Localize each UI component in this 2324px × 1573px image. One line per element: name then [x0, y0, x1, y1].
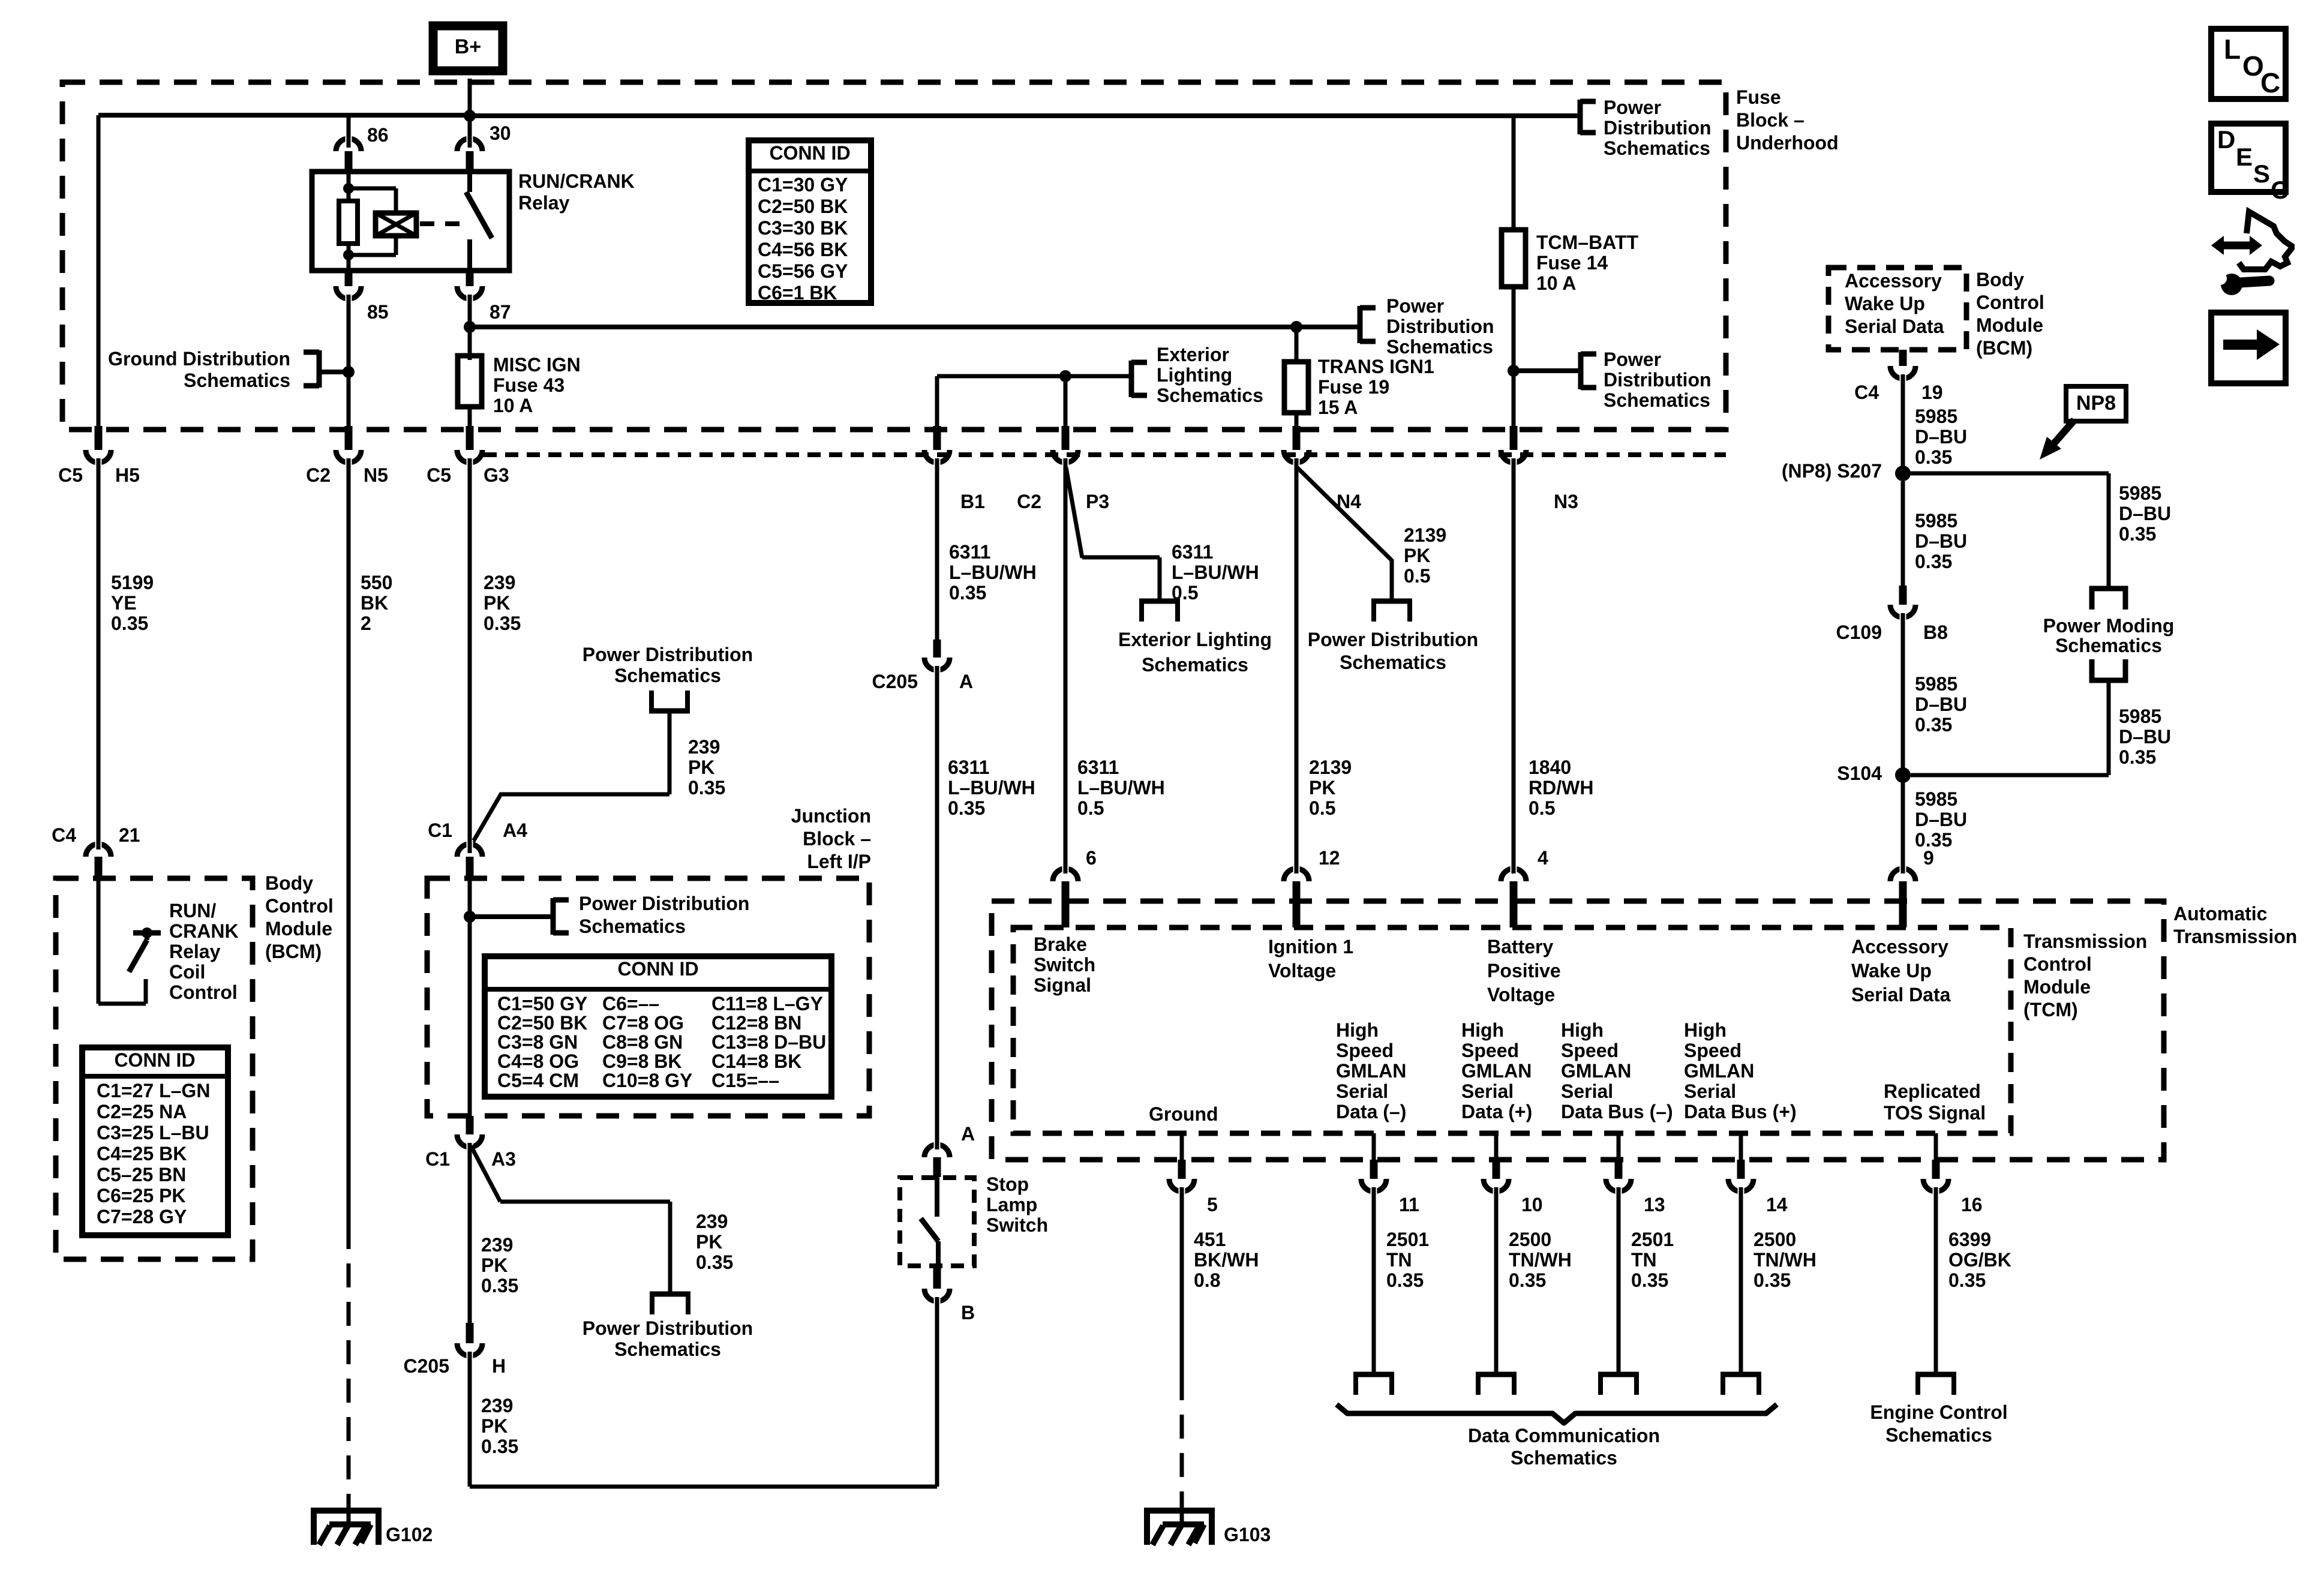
table CONN ID junction block: [485, 956, 831, 1097]
svg-text:Speed: Speed: [1461, 1040, 1519, 1061]
svg-text:239: 239: [688, 736, 720, 758]
svg-text:10 A: 10 A: [1536, 272, 1576, 294]
svg-text:D–BU: D–BU: [2119, 726, 2171, 748]
svg-text:C8=8 GN: C8=8 GN: [602, 1031, 683, 1053]
svg-text:Distribution: Distribution: [1386, 316, 1494, 337]
svg-text:Signal: Signal: [1034, 974, 1091, 996]
svg-text:0.35: 0.35: [481, 1436, 518, 1457]
svg-text:Exterior: Exterior: [1157, 344, 1229, 365]
svg-text:Ground Distribution: Ground Distribution: [108, 348, 290, 370]
svg-text:Schematics: Schematics: [1885, 1424, 1992, 1446]
connector TCM pin 5: [1169, 1133, 1218, 1215]
svg-text:Control: Control: [2023, 953, 2092, 975]
off-page terminal Power Distribution Schematics (N4): [1308, 601, 1478, 673]
svg-text:5985: 5985: [2119, 706, 2161, 727]
fuse TRANS IGN1 Fuse 19 15A: [1284, 356, 1434, 418]
svg-text:C2=50 BK: C2=50 BK: [497, 1012, 587, 1034]
svg-text:MISC IGN: MISC IGN: [493, 354, 581, 376]
svg-text:30: 30: [490, 122, 511, 144]
svg-text:Schematics: Schematics: [1157, 385, 1263, 406]
label Junction Block - Left I/P: [791, 805, 871, 872]
svg-text:A3: A3: [491, 1148, 516, 1170]
relay switch: [466, 173, 492, 271]
svg-text:Positive: Positive: [1487, 960, 1561, 981]
fuse MISC IGN Fuse 43 10A: [458, 354, 581, 416]
connector C5 pin H5: [58, 426, 140, 486]
stop lamp switch dashed box: [900, 1178, 974, 1266]
svg-text:Serial: Serial: [1684, 1080, 1736, 1102]
table CONN ID BCM: [82, 1047, 228, 1235]
svg-text:BK/WH: BK/WH: [1194, 1249, 1259, 1271]
svg-text:(NP8) S207: (NP8) S207: [1782, 460, 1882, 482]
svg-text:CRANK: CRANK: [169, 920, 239, 942]
svg-text:D–BU: D–BU: [1915, 426, 1967, 448]
wire C205A down to stop lamp switch: [935, 666, 939, 1148]
wire P3 branch to exterior lighting: [1066, 467, 1160, 601]
label 239 PK 0.35 (G3): [484, 572, 521, 634]
svg-text:L: L: [2224, 34, 2241, 65]
label 2501 TN 0.35: [1631, 1229, 1674, 1291]
svg-text:Battery: Battery: [1487, 936, 1553, 957]
svg-text:PK: PK: [484, 592, 510, 614]
svg-text:451: 451: [1194, 1229, 1226, 1250]
svg-text:C2=50 BK: C2=50 BK: [758, 196, 848, 217]
svg-text:N3: N3: [1554, 491, 1578, 512]
svg-text:Serial: Serial: [1461, 1080, 1514, 1102]
label 5985 D-BU 0.35 (pin 9): [1915, 788, 1967, 851]
svg-text:Power: Power: [1604, 349, 1661, 370]
label Brake Switch Signal: [1034, 933, 1095, 996]
connector TCM pin 10: [1484, 1133, 1543, 1215]
svg-text:0.35: 0.35: [2119, 523, 2156, 545]
wire pin85 down to N5: [347, 295, 351, 427]
connector TCM pin 14: [1728, 1133, 1788, 1215]
wire 6399 OG/BK pin 16: [1934, 1187, 1938, 1374]
off-page box Power Moding Schematics: [2043, 589, 2175, 680]
wire C4-19 to S207: [1901, 374, 1905, 473]
BCM dashed box (left): [56, 878, 253, 1259]
harness connector row dashed line: [484, 452, 1726, 457]
automatic transmission outer dashed box: [992, 901, 2164, 1160]
wire 2500 TN/WH at x2494: [1494, 1187, 1499, 1374]
svg-text:Lighting: Lighting: [1157, 364, 1232, 386]
svg-text:0.8: 0.8: [1194, 1269, 1220, 1291]
label 239 PK 0.35 (below C205 H): [481, 1395, 518, 1457]
svg-text:5: 5: [1207, 1194, 1218, 1215]
label Body Control Module (BCM) right: [1976, 269, 2044, 359]
svg-text:Distribution: Distribution: [1604, 369, 1712, 391]
stop lamp switch contacts: [921, 1177, 938, 1268]
svg-text:Engine Control: Engine Control: [1870, 1401, 2007, 1423]
svg-text:6399: 6399: [1948, 1229, 1991, 1250]
svg-text:2500: 2500: [1509, 1229, 1551, 1250]
label High Speed GMLAN Serial Data Bus (-): [1561, 1019, 1673, 1122]
svg-text:GMLAN: GMLAN: [1461, 1060, 1532, 1082]
svg-text:5199: 5199: [111, 572, 154, 593]
wire to relay pin 86: [347, 115, 351, 142]
label 239 PK 0.35 (A3 branch): [696, 1211, 733, 1273]
svg-text:TN: TN: [1631, 1249, 1657, 1271]
svg-text:C13=8 D–BU: C13=8 D–BU: [711, 1031, 826, 1053]
off-page terminal Power Distribution Schematics (above A4): [582, 644, 753, 711]
svg-text:Relay: Relay: [169, 941, 221, 962]
icon right arrow box: [2211, 313, 2286, 383]
svg-text:1840: 1840: [1529, 757, 1571, 778]
svg-text:RUN/CRANK: RUN/CRANK: [518, 170, 635, 192]
svg-text:0.35: 0.35: [1915, 551, 1952, 572]
svg-text:6311: 6311: [949, 541, 990, 563]
svg-text:Relay: Relay: [518, 192, 570, 214]
svg-text:Coil: Coil: [169, 961, 205, 983]
svg-text:0.35: 0.35: [949, 582, 986, 604]
svg-text:C2: C2: [306, 464, 331, 486]
svg-text:C4: C4: [1854, 382, 1879, 403]
svg-text:C3=25 L–BU: C3=25 L–BU: [97, 1122, 209, 1143]
svg-text:C1: C1: [425, 1148, 450, 1170]
connector TCM pin 13: [1606, 1133, 1665, 1215]
svg-text:B+: B+: [455, 35, 481, 58]
table CONN ID fuse block: [749, 140, 871, 304]
svg-text:2500: 2500: [1753, 1229, 1796, 1250]
node junction P3 tap: [1059, 370, 1071, 382]
svg-text:TN: TN: [1386, 1249, 1412, 1271]
svg-text:Schematics: Schematics: [1340, 652, 1446, 673]
label 1840 RD/WH 0.5: [1529, 757, 1593, 819]
svg-text:Voltage: Voltage: [1268, 960, 1336, 981]
svg-text:NP8: NP8: [2076, 392, 2116, 415]
svg-text:0.35: 0.35: [1948, 1269, 1986, 1291]
wire power moding down to S104: [1911, 680, 2109, 775]
svg-text:L–BU/WH: L–BU/WH: [1172, 562, 1259, 583]
svg-text:C7=8 OG: C7=8 OG: [602, 1012, 684, 1034]
svg-text:(BCM): (BCM): [265, 941, 322, 962]
wire B1 top corner: [937, 376, 1130, 427]
svg-text:Schematics: Schematics: [579, 915, 686, 937]
svg-text:2: 2: [361, 613, 371, 634]
svg-text:Schematics: Schematics: [1511, 1447, 1617, 1469]
connector pin 85: [336, 271, 389, 323]
svg-text:10: 10: [1521, 1194, 1543, 1215]
label Engine Control Schematics: [1870, 1401, 2007, 1446]
label RUN/CRANK Relay Coil Control: [169, 900, 239, 1003]
relay coil actuator dashed link: [420, 221, 463, 226]
svg-text:0.35: 0.35: [1915, 446, 1952, 468]
svg-text:Data (+): Data (+): [1461, 1101, 1532, 1122]
svg-text:C11=8 L–GY: C11=8 L–GY: [711, 993, 823, 1014]
svg-text:239: 239: [481, 1395, 513, 1416]
fuse TCM-BATT Fuse 14 10A: [1502, 230, 1639, 294]
svg-text:0.35: 0.35: [484, 613, 521, 634]
svg-text:85: 85: [367, 301, 389, 323]
svg-text:Accessory: Accessory: [1851, 936, 1948, 957]
svg-text:OG/BK: OG/BK: [1948, 1249, 2011, 1271]
ground G103: [1147, 1511, 1271, 1545]
svg-text:L–BU/WH: L–BU/WH: [949, 562, 1037, 583]
svg-text:Serial Data: Serial Data: [1845, 316, 1944, 337]
svg-text:10 A: 10 A: [493, 395, 533, 416]
label 5985 D-BU 0.35 (C4-19): [1915, 406, 1967, 468]
svg-text:D–BU: D–BU: [2119, 503, 2171, 524]
off-page terminal data link at x2698: [1598, 1374, 1639, 1395]
svg-text:0.35: 0.35: [948, 797, 985, 819]
svg-text:C4=8 OG: C4=8 OG: [497, 1050, 579, 1072]
connector C1 pin A4: [428, 819, 527, 879]
svg-text:12: 12: [1319, 847, 1340, 869]
junction block dashed box: [427, 878, 869, 1116]
svg-text:Switch: Switch: [986, 1214, 1048, 1236]
node junction block power tap: [464, 911, 552, 923]
connector C2 pin N5: [306, 426, 388, 486]
svg-text:Schematics: Schematics: [1604, 137, 1710, 159]
svg-text:D–BU: D–BU: [1915, 530, 1967, 552]
svg-text:CONN ID: CONN ID: [617, 958, 698, 980]
label Fuse Block - Underhood: [1736, 86, 1839, 154]
icon vehicle wrench: [2211, 212, 2292, 295]
svg-text:Transmission: Transmission: [2023, 930, 2147, 952]
wire top bus y193: [98, 115, 1579, 116]
svg-text:Block –: Block –: [1736, 109, 1804, 131]
svg-text:D–BU: D–BU: [1915, 694, 1967, 715]
connector C2 pin P3: [1017, 426, 1109, 512]
connector C4 pin 21: [52, 824, 140, 877]
label 5985 D-BU 0.35 (power moding lower): [2119, 706, 2171, 768]
svg-text:Replicated: Replicated: [1884, 1080, 1981, 1102]
svg-text:PK: PK: [481, 1254, 508, 1276]
svg-text:Lamp: Lamp: [986, 1194, 1037, 1215]
svg-text:Schematics: Schematics: [614, 1338, 721, 1360]
wire N3 down to TCM pin 4: [1512, 458, 1516, 873]
svg-text:Speed: Speed: [1684, 1040, 1742, 1061]
svg-text:14: 14: [1766, 1194, 1788, 1215]
svg-text:0.35: 0.35: [1915, 714, 1952, 736]
svg-text:PK: PK: [1309, 777, 1335, 798]
label 550 BK 2: [361, 572, 392, 634]
svg-text:0.35: 0.35: [2119, 746, 2156, 768]
NP8 option box and arrow: [2040, 386, 2126, 460]
off-page terminal Power Distribution Schematics (below A3): [582, 1294, 753, 1360]
off-page ref Ground Distribution Schematics: [108, 348, 319, 391]
label 239 PK 0.35 (A3 main): [481, 1234, 518, 1296]
svg-text:C4=25 BK: C4=25 BK: [97, 1143, 187, 1164]
svg-text:11: 11: [1399, 1194, 1419, 1215]
svg-text:PK: PK: [688, 757, 714, 778]
off-page ref Exterior Lighting Schematics (top): [1131, 344, 1263, 406]
label 6311 L-BU/WH 0.5 (P3 branch): [1172, 541, 1259, 604]
svg-text:(TCM): (TCM): [2023, 999, 2078, 1020]
svg-text:Left I/P: Left I/P: [807, 851, 871, 872]
svg-text:19: 19: [1921, 382, 1943, 403]
svg-text:5985: 5985: [1915, 406, 1957, 427]
svg-text:High: High: [1561, 1019, 1604, 1041]
svg-text:C205: C205: [872, 671, 918, 692]
connector pin 87: [457, 271, 511, 323]
connector TCM pin 11: [1361, 1133, 1419, 1215]
svg-text:C12=8 BN: C12=8 BN: [711, 1012, 801, 1034]
svg-text:Power: Power: [1386, 295, 1444, 317]
wire S207 right branch to power moding: [1903, 473, 2109, 589]
label Stop Lamp Switch: [986, 1173, 1048, 1236]
svg-text:5985: 5985: [1915, 788, 1957, 810]
svg-text:L–BU/WH: L–BU/WH: [1077, 777, 1165, 798]
svg-text:High: High: [1461, 1019, 1504, 1041]
svg-text:RD/WH: RD/WH: [1529, 777, 1593, 798]
svg-text:Power: Power: [1604, 97, 1661, 118]
relay internal coil: [343, 183, 416, 260]
svg-text:D: D: [2217, 125, 2235, 154]
svg-text:CONN ID: CONN ID: [769, 142, 850, 164]
svg-text:C5=4 CM: C5=4 CM: [497, 1070, 579, 1091]
svg-text:2501: 2501: [1631, 1229, 1674, 1250]
svg-text:Distribution: Distribution: [1604, 117, 1712, 139]
svg-text:Accessory: Accessory: [1845, 270, 1942, 292]
svg-text:0.5: 0.5: [1529, 797, 1555, 819]
wire B+ down to junction: [468, 79, 472, 138]
svg-text:H5: H5: [115, 464, 140, 486]
svg-text:Control: Control: [1976, 292, 2044, 313]
svg-text:C15=––: C15=––: [711, 1070, 779, 1091]
fuse block - underhood dashed box: [62, 82, 1726, 430]
connector pin N4: [1284, 426, 1361, 512]
label Battery Positive Voltage: [1487, 936, 1561, 1005]
svg-text:Block –: Block –: [803, 828, 871, 849]
svg-text:Schematics: Schematics: [2055, 635, 2162, 656]
svg-text:Module: Module: [1976, 314, 2043, 336]
svg-text:A: A: [961, 1123, 975, 1145]
svg-text:GMLAN: GMLAN: [1561, 1060, 1631, 1082]
svg-text:Module: Module: [2023, 976, 2091, 998]
svg-text:C5=56 GY: C5=56 GY: [758, 260, 848, 282]
svg-text:C9=8 BK: C9=8 BK: [602, 1050, 682, 1072]
svg-text:Ground: Ground: [1149, 1103, 1218, 1125]
connector C205 pin A: [872, 640, 974, 692]
svg-text:2139: 2139: [1309, 757, 1352, 778]
svg-text:Power Distribution: Power Distribution: [582, 644, 753, 665]
label Automatic Transmission: [2173, 903, 2297, 947]
off-page terminal Exterior Lighting Schematics (P3): [1118, 601, 1272, 676]
svg-text:Data Bus (–): Data Bus (–): [1561, 1101, 1673, 1122]
svg-text:5985: 5985: [2119, 482, 2161, 504]
label 6311 L-BU/WH 0.5 (pin 6): [1077, 757, 1165, 819]
wire fuse19 to N4: [1295, 413, 1299, 427]
svg-text:Speed: Speed: [1561, 1040, 1619, 1061]
svg-text:C6=25 PK: C6=25 PK: [97, 1185, 186, 1206]
connector C4 pin 19: [1854, 350, 1943, 403]
svg-text:C205: C205: [404, 1355, 450, 1377]
splice S207: [1782, 460, 1911, 482]
svg-text:CONN ID: CONN ID: [114, 1049, 195, 1071]
svg-text:S: S: [2253, 160, 2270, 188]
label Replicated TOS Signal: [1884, 1080, 1986, 1124]
svg-text:C: C: [2260, 67, 2280, 98]
label Data Communication Schematics: [1468, 1425, 1660, 1469]
svg-text:C7=28 GY: C7=28 GY: [97, 1206, 187, 1227]
svg-text:C4: C4: [52, 824, 76, 846]
svg-text:Schematics: Schematics: [614, 665, 721, 686]
svg-text:Control: Control: [265, 895, 334, 917]
label 5199 YE 0.35: [111, 572, 154, 634]
ground G102: [314, 1511, 433, 1545]
wire 2500 TN/WH at x2902: [1739, 1187, 1743, 1374]
svg-text:C: C: [2271, 176, 2289, 204]
svg-text:B: B: [961, 1302, 975, 1323]
off-page terminal engine control (pin 16): [1915, 1374, 1956, 1395]
svg-text:C10=8 GY: C10=8 GY: [602, 1070, 692, 1091]
connector C5 pin G3: [427, 426, 509, 486]
svg-text:Serial: Serial: [1336, 1080, 1388, 1102]
wire A3 branch to power distribution: [471, 1146, 670, 1294]
svg-text:A: A: [959, 671, 973, 692]
svg-text:C3=8 GN: C3=8 GN: [497, 1031, 578, 1053]
svg-text:Transmission: Transmission: [2173, 926, 2297, 947]
svg-text:TOS Signal: TOS Signal: [1884, 1102, 1986, 1124]
svg-text:6311: 6311: [1172, 541, 1213, 563]
label High Speed GMLAN Serial Data Bus (+): [1684, 1019, 1797, 1122]
label 2500 TN/WH 0.35: [1753, 1229, 1816, 1291]
wire 451 BK/WH pin 5: [1180, 1187, 1184, 1524]
svg-text:PK: PK: [696, 1231, 722, 1253]
svg-text:550: 550: [361, 572, 392, 593]
svg-text:C1=27 L–GN: C1=27 L–GN: [97, 1080, 210, 1101]
svg-text:13: 13: [1644, 1194, 1665, 1215]
wire C205H to stop lamp B: [470, 1303, 937, 1487]
svg-text:Data Communication: Data Communication: [1468, 1425, 1660, 1446]
relay internal resistor: [339, 173, 358, 271]
svg-text:Voltage: Voltage: [1487, 984, 1555, 1005]
connector TCM pin 12: [1284, 847, 1340, 927]
wire TCM-BATT fuse down to N3: [1512, 287, 1516, 427]
wire 5199 YE: [97, 458, 101, 847]
svg-text:Power Distribution: Power Distribution: [579, 893, 749, 914]
svg-text:0.35: 0.35: [1509, 1269, 1546, 1291]
svg-text:A4: A4: [503, 819, 527, 841]
wire N3 from top bus: [1512, 116, 1516, 230]
svg-text:C1: C1: [428, 819, 452, 841]
svg-text:Schematics: Schematics: [1604, 389, 1710, 411]
off-page ref Power Distribution Schematics (junction block): [553, 893, 749, 937]
label Accessory Wake Up Serial Data (TCM): [1851, 936, 1951, 1005]
svg-text:High: High: [1336, 1019, 1379, 1041]
label Transmission Control Module (TCM): [2023, 930, 2147, 1020]
svg-text:Fuse 43: Fuse 43: [493, 374, 565, 396]
label Body Control Module (BCM) left: [265, 872, 334, 962]
splice S104: [1837, 763, 1911, 784]
node ground distribution tap: [320, 366, 355, 378]
svg-text:G102: G102: [386, 1524, 433, 1545]
wire 2501 TN at x2698: [1617, 1187, 1621, 1374]
connector pin B1: [924, 426, 985, 512]
connector pin N3: [1501, 426, 1578, 512]
svg-text:C3=30 BK: C3=30 BK: [758, 217, 848, 239]
wire 550 BK dashed part: [347, 1225, 351, 1524]
label High Speed GMLAN Serial Data (-): [1336, 1019, 1406, 1122]
svg-text:Wake Up: Wake Up: [1851, 960, 1932, 981]
connector C205 pin H: [404, 1323, 506, 1377]
node junction 87 bus: [464, 321, 476, 333]
svg-text:TRANS IGN1: TRANS IGN1: [1318, 356, 1434, 377]
svg-text:(BCM): (BCM): [1976, 337, 2032, 359]
svg-text:Fuse: Fuse: [1736, 86, 1781, 108]
svg-text:9: 9: [1923, 847, 1934, 869]
svg-text:TCM–BATT: TCM–BATT: [1536, 232, 1639, 253]
svg-text:C109: C109: [1836, 622, 1882, 643]
svg-text:C5–25 BN: C5–25 BN: [97, 1164, 186, 1185]
svg-text:PK: PK: [1404, 545, 1430, 566]
relay RUN/CRANK box: [312, 170, 635, 271]
node junction TRANS IGN1 tap: [1290, 321, 1302, 362]
wire S207 down to C109: [1901, 481, 1905, 586]
svg-text:16: 16: [1961, 1194, 1983, 1215]
svg-text:Schematics: Schematics: [1386, 336, 1493, 358]
